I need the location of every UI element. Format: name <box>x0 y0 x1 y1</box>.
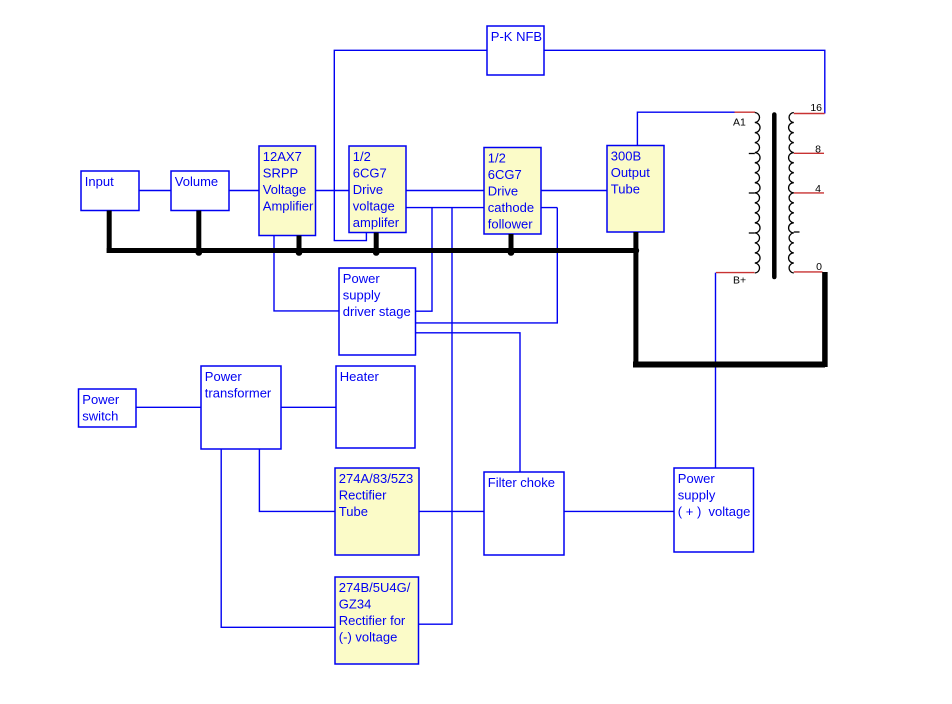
svg-text:274B/5U4G/: 274B/5U4G/ <box>339 580 411 595</box>
svg-text:Tube: Tube <box>611 181 640 196</box>
svg-text:Heater: Heater <box>340 369 380 384</box>
svg-text:P-K NFB: P-K NFB <box>491 29 542 44</box>
svg-text:4: 4 <box>815 183 821 195</box>
svg-text:Input: Input <box>85 174 114 189</box>
svg-text:B+: B+ <box>733 275 746 287</box>
svg-text:0: 0 <box>816 261 822 273</box>
svg-text:Power: Power <box>678 471 716 486</box>
svg-text:Voltage: Voltage <box>263 182 306 197</box>
svg-text:( + ) voltage: ( + ) voltage <box>678 504 751 519</box>
svg-text:supply: supply <box>343 287 381 302</box>
svg-text:6CG7: 6CG7 <box>353 165 387 180</box>
svg-text:12AX7: 12AX7 <box>263 149 302 164</box>
svg-text:Drive: Drive <box>488 183 518 198</box>
svg-text:Output: Output <box>611 165 650 180</box>
svg-text:1/2: 1/2 <box>488 150 506 165</box>
svg-text:6CG7: 6CG7 <box>488 167 522 182</box>
svg-text:Rectifier for: Rectifier for <box>339 613 406 628</box>
svg-text:Power: Power <box>343 271 381 286</box>
svg-text:8: 8 <box>815 144 821 156</box>
svg-text:274A/83/5Z3: 274A/83/5Z3 <box>339 471 413 486</box>
svg-text:cathode: cathode <box>488 200 534 215</box>
svg-text:Drive: Drive <box>353 182 383 197</box>
svg-text:SRPP: SRPP <box>263 165 298 180</box>
svg-text:A1: A1 <box>733 117 746 129</box>
svg-text:Amplifier: Amplifier <box>263 198 314 213</box>
svg-text:transformer: transformer <box>205 385 272 400</box>
svg-text:Power: Power <box>205 369 243 384</box>
svg-text:1/2: 1/2 <box>353 149 371 164</box>
svg-text:switch: switch <box>82 408 118 423</box>
svg-text:300B: 300B <box>611 148 641 163</box>
svg-text:Volume: Volume <box>175 174 218 189</box>
svg-text:(-) voltage: (-) voltage <box>339 629 398 644</box>
svg-text:follower: follower <box>488 216 533 231</box>
svg-text:Filter choke: Filter choke <box>488 475 555 490</box>
svg-text:voltage: voltage <box>353 198 395 213</box>
svg-text:Tube: Tube <box>339 504 368 519</box>
svg-text:supply: supply <box>678 487 716 502</box>
svg-text:16: 16 <box>810 102 822 114</box>
svg-text:driver stage: driver stage <box>343 304 411 319</box>
svg-text:Power: Power <box>82 392 120 407</box>
svg-text:amplifer: amplifer <box>353 215 400 230</box>
svg-text:Rectifier: Rectifier <box>339 487 387 502</box>
svg-text:GZ34: GZ34 <box>339 596 372 611</box>
